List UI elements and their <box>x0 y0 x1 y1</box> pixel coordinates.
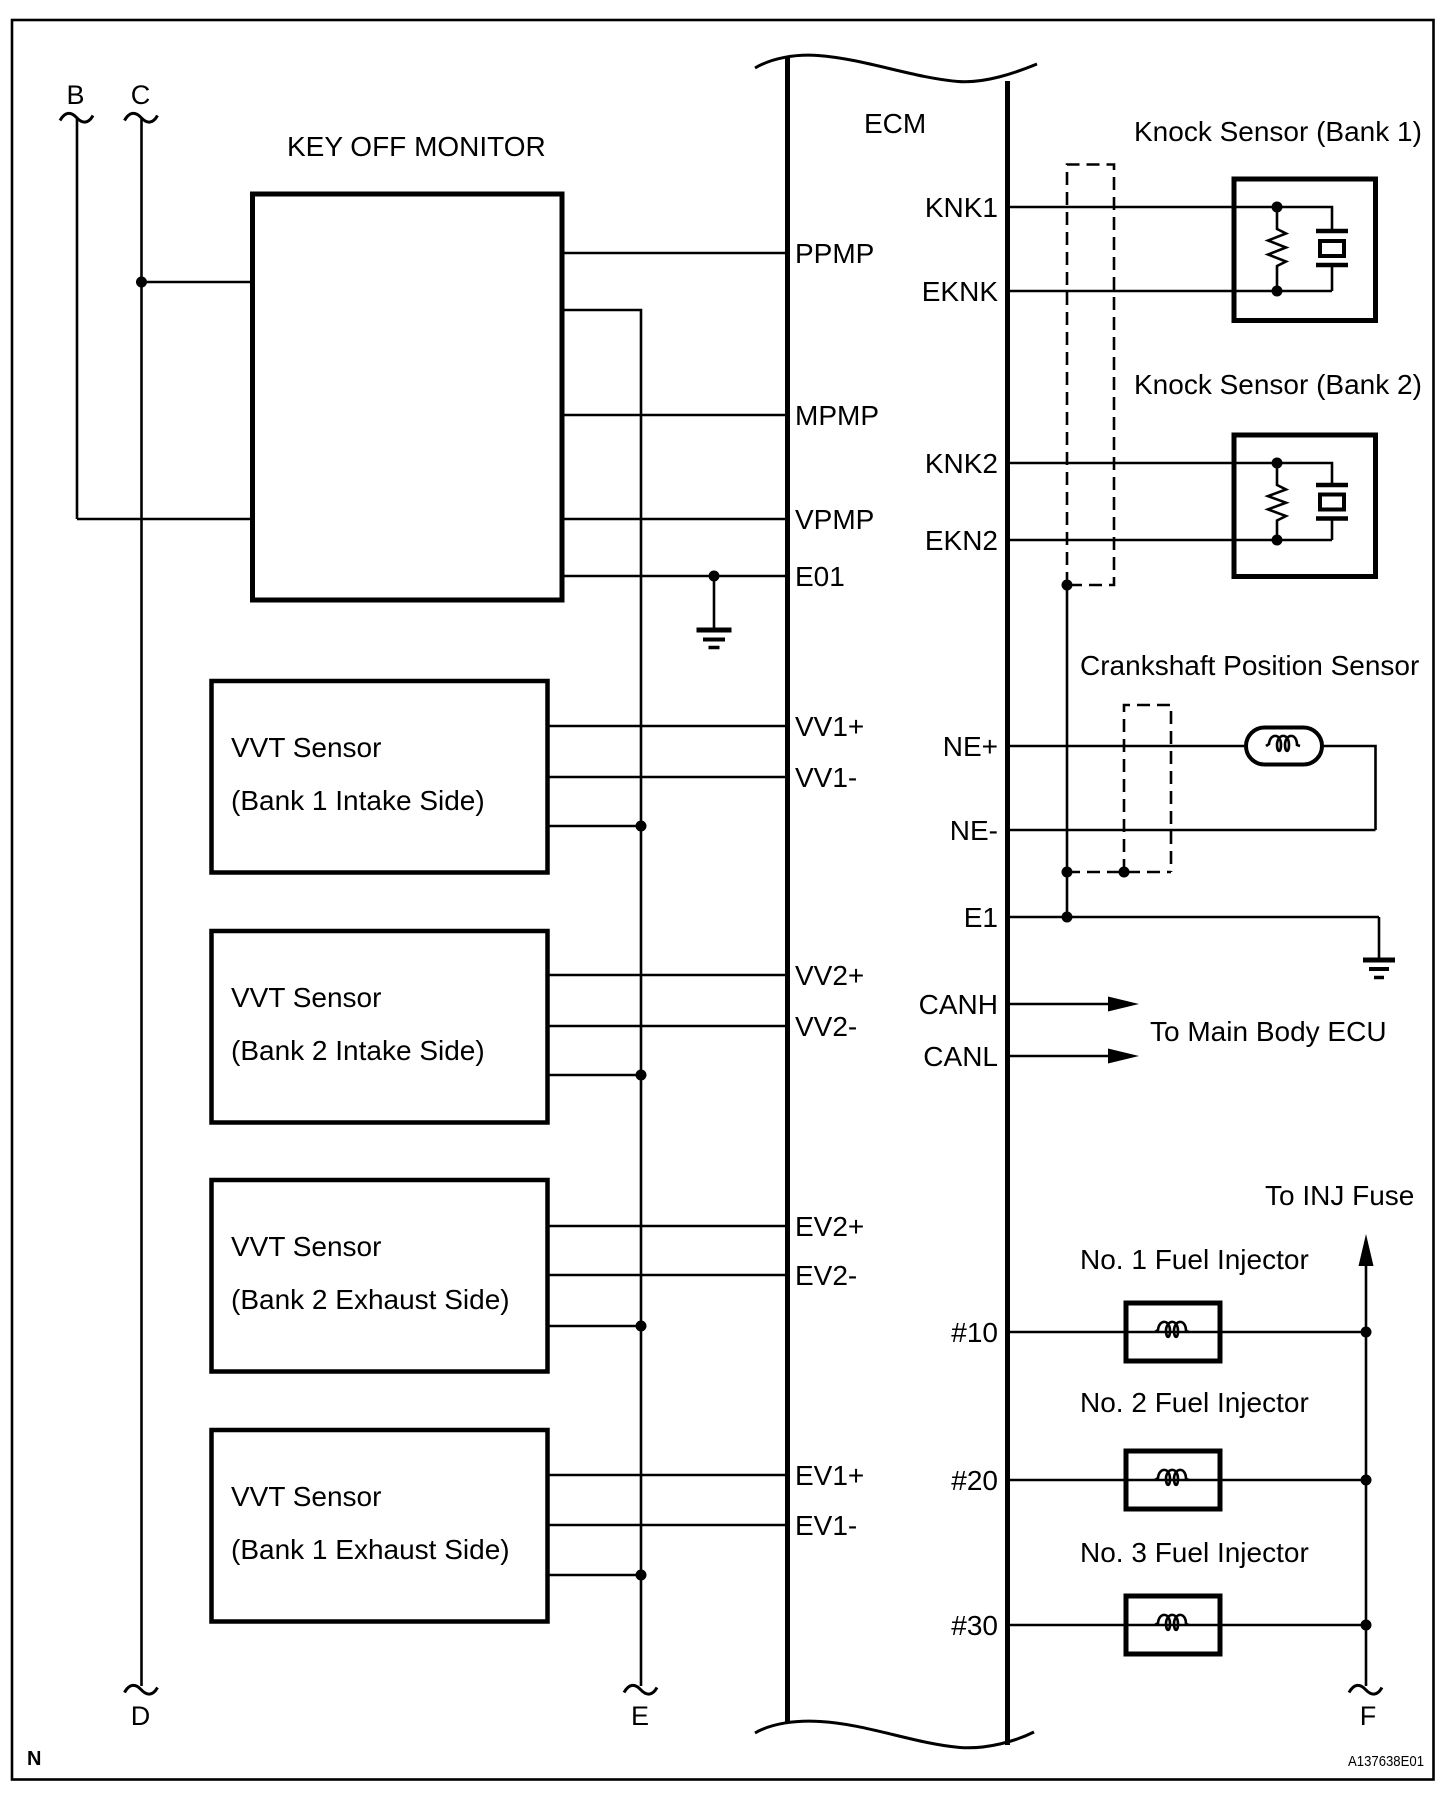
node knock2 bottom <box>1272 535 1283 546</box>
svg-text:D: D <box>131 1701 151 1731</box>
svg-text:EV2+: EV2+ <box>795 1211 864 1242</box>
ground (E1) <box>1363 917 1395 978</box>
junction shield2 left <box>1062 867 1073 878</box>
node knock1 top <box>1272 202 1283 213</box>
svg-text:EV1-: EV1- <box>795 1510 857 1541</box>
ECM right boundary <box>1005 81 1010 1745</box>
wire #20 <box>1010 1479 1366 1482</box>
wire EKN2 <box>1010 539 1332 542</box>
fuel injector 2 <box>1126 1451 1220 1509</box>
wire VVT2 ground to node E <box>548 1074 642 1077</box>
junction on C <box>136 277 147 288</box>
svg-text:C: C <box>131 80 151 110</box>
piezo element (knock 2) <box>1277 463 1348 540</box>
svg-text:EV2-: EV2- <box>795 1260 857 1291</box>
svg-text:B: B <box>66 80 84 110</box>
wire VV1+ <box>548 725 786 728</box>
svg-text:EV1+: EV1+ <box>795 1460 864 1491</box>
svg-text:E01: E01 <box>795 561 845 592</box>
svg-text:EKNK: EKNK <box>922 276 999 307</box>
resistor (knock 1) <box>1268 207 1286 291</box>
VVT sensor box (Bank 1 Intake) <box>212 681 548 873</box>
wire NE- <box>1010 829 1376 832</box>
junction #30/F <box>1361 1620 1372 1631</box>
wire VV2- <box>548 1025 786 1028</box>
wire #30 <box>1010 1624 1366 1627</box>
svg-text:VV1-: VV1- <box>795 762 857 793</box>
wire E01 <box>562 575 785 578</box>
junction VVT1/E <box>636 821 647 832</box>
ECM top torn edge <box>755 55 1037 82</box>
svg-text:No. 3 Fuel Injector: No. 3 Fuel Injector <box>1080 1537 1309 1568</box>
svg-text:#30: #30 <box>951 1610 998 1641</box>
svg-text:KEY OFF MONITOR: KEY OFF MONITOR <box>287 131 546 162</box>
svg-text:No. 1 Fuel Injector: No. 1 Fuel Injector <box>1080 1244 1309 1275</box>
junction #10/F <box>1361 1327 1372 1338</box>
junction E1 <box>1062 912 1073 923</box>
svg-text:A137638E01: A137638E01 <box>1348 1753 1424 1770</box>
junction VVT3/E <box>636 1321 647 1332</box>
junction #20/F <box>1361 1475 1372 1486</box>
svg-text:#20: #20 <box>951 1465 998 1496</box>
ECM bottom torn edge <box>755 1721 1034 1748</box>
shield bottom dashed link <box>1067 871 1171 874</box>
svg-text:PPMP: PPMP <box>795 238 874 269</box>
node D <box>125 1685 158 1731</box>
svg-text:VPMP: VPMP <box>795 504 874 535</box>
node B <box>60 80 93 122</box>
wire VPMP <box>562 518 785 521</box>
wire VVT3 ground to node E <box>548 1325 642 1328</box>
wire NE+ <box>1010 745 1246 748</box>
wire CANL with arrow <box>1010 1049 1139 1064</box>
svg-text:VVT Sensor: VVT Sensor <box>231 1481 381 1512</box>
svg-text:KNK1: KNK1 <box>925 192 998 223</box>
wire VV2+ <box>548 974 786 977</box>
node E <box>624 1685 657 1731</box>
svg-text:VVT Sensor: VVT Sensor <box>231 982 381 1013</box>
junction on E01 wire <box>709 571 720 582</box>
svg-text:NE+: NE+ <box>943 731 998 762</box>
svg-text:VV2-: VV2- <box>795 1011 857 1042</box>
node knock1 bottom <box>1272 286 1283 297</box>
resistor (knock 2) <box>1268 463 1286 540</box>
svg-text:To Main Body ECU: To Main Body ECU <box>1150 1016 1387 1047</box>
svg-text:CANL: CANL <box>923 1041 998 1072</box>
wire B to monitor (VPMP level) <box>77 518 252 521</box>
wire B vertical <box>76 119 79 519</box>
wire KNK2 <box>1010 462 1277 465</box>
wire VV1- <box>548 776 786 779</box>
svg-text:CANH: CANH <box>919 989 998 1020</box>
fuel injector 3 <box>1126 1596 1220 1654</box>
svg-text:(Bank 1 Intake Side): (Bank 1 Intake Side) <box>231 785 485 816</box>
svg-text:E1: E1 <box>964 902 998 933</box>
wire F vertical <box>1365 1266 1368 1686</box>
node F <box>1349 1685 1382 1731</box>
wire KNK1 <box>1010 206 1277 209</box>
svg-text:EKN2: EKN2 <box>925 525 998 556</box>
wire MPMP <box>562 414 785 417</box>
node knock2 top <box>1272 458 1283 469</box>
wire PPMP <box>562 252 785 255</box>
KEY OFF MONITOR block <box>253 131 563 600</box>
svg-text:NE-: NE- <box>950 815 998 846</box>
wire C to monitor (PPMP level) <box>142 281 253 284</box>
wire VVT4 ground to node E <box>548 1574 642 1577</box>
VVT sensor box (Bank 1 Exhaust) <box>212 1430 548 1622</box>
wire EV2+ <box>548 1225 786 1228</box>
svg-text:F: F <box>1360 1701 1377 1731</box>
wire CANH with arrow <box>1010 997 1139 1012</box>
junction VVT4/E <box>636 1570 647 1581</box>
knock sensor 1 box <box>1234 179 1376 321</box>
wire EV2- <box>548 1274 786 1277</box>
svg-text:VV2+: VV2+ <box>795 960 864 991</box>
pickup coil (crankshaft sensor) <box>1246 728 1322 765</box>
arrow to INJ fuse <box>1359 1234 1374 1266</box>
wire monitor to node E <box>562 310 641 1686</box>
junction shield bottom <box>1062 580 1073 591</box>
svg-text:(Bank 2 Exhaust Side): (Bank 2 Exhaust Side) <box>231 1284 510 1315</box>
wire VVT1 ground to node E <box>548 825 642 828</box>
node C <box>125 80 158 122</box>
wire NE+ right <box>1322 746 1376 830</box>
wire EV1+ <box>548 1474 786 1477</box>
wire shield to E1 <box>1066 585 1069 917</box>
svg-text:(Bank 2 Intake Side): (Bank 2 Intake Side) <box>231 1035 485 1066</box>
svg-text:No. 2 Fuel Injector: No. 2 Fuel Injector <box>1080 1387 1309 1418</box>
svg-text:E: E <box>631 1701 649 1731</box>
VVT sensor box (Bank 2 Exhaust) <box>212 1180 548 1372</box>
svg-text:Knock Sensor (Bank 1): Knock Sensor (Bank 1) <box>1134 116 1422 147</box>
junction shield2 corner <box>1119 867 1130 878</box>
svg-text:(Bank 1 Exhaust Side): (Bank 1 Exhaust Side) <box>231 1534 510 1565</box>
ground (E01) <box>697 576 732 648</box>
junction VVT2/E <box>636 1070 647 1081</box>
svg-text:Knock Sensor (Bank 2): Knock Sensor (Bank 2) <box>1134 369 1422 400</box>
svg-text:Crankshaft Position Sensor: Crankshaft Position Sensor <box>1080 650 1419 681</box>
svg-text:ECM: ECM <box>864 108 926 139</box>
wire #10 <box>1010 1331 1366 1334</box>
wire E1 <box>1010 916 1379 919</box>
wire C/D vertical <box>140 119 143 1686</box>
ECM left boundary <box>785 57 790 1723</box>
shield (crankshaft sensor) dashed <box>1124 705 1171 872</box>
svg-text:N: N <box>27 1748 41 1770</box>
knock sensor 2 box <box>1234 435 1376 577</box>
wire EKNK <box>1010 290 1332 293</box>
wire EV1- <box>548 1524 786 1527</box>
svg-text:KNK2: KNK2 <box>925 448 998 479</box>
fuel injector 1 <box>1126 1303 1220 1361</box>
VVT sensor box (Bank 2 Intake) <box>212 931 548 1123</box>
svg-text:VV1+: VV1+ <box>795 711 864 742</box>
svg-text:To INJ Fuse: To INJ Fuse <box>1265 1180 1414 1211</box>
svg-text:MPMP: MPMP <box>795 400 879 431</box>
svg-text:VVT Sensor: VVT Sensor <box>231 732 381 763</box>
shield (knock sensors) dashed <box>1067 165 1114 586</box>
piezo element (knock 1) <box>1277 207 1348 291</box>
svg-text:#10: #10 <box>951 1317 998 1348</box>
svg-text:VVT Sensor: VVT Sensor <box>231 1231 381 1262</box>
